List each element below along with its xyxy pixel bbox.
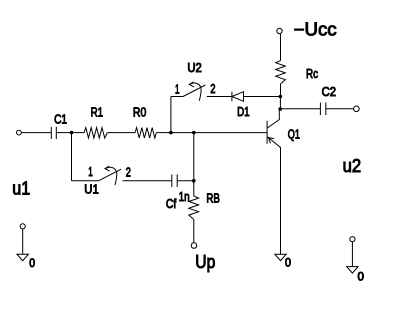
node junction rail/Cf-RB bbox=[192, 131, 196, 135]
resistor RB bbox=[189, 181, 199, 243]
node junction Rc/D1 bbox=[279, 95, 283, 99]
wire junction to C2 bbox=[280, 108, 320, 110]
svg-text:0: 0 bbox=[285, 258, 291, 270]
ground u2 source bbox=[347, 267, 358, 274]
switch U2 bbox=[171, 82, 232, 101]
wire U2 pin1 vertical bbox=[170, 97, 172, 133]
terminal u2 source top bbox=[350, 237, 355, 242]
wire -Ucc to Rc bbox=[280, 34, 282, 61]
svg-text:1n: 1n bbox=[179, 189, 190, 204]
svg-text:1: 1 bbox=[175, 83, 180, 97]
resistor Rc bbox=[276, 61, 286, 97]
wire input to C1 bbox=[22, 132, 52, 134]
ground u1 source bbox=[17, 254, 28, 260]
svg-text:Q1: Q1 bbox=[288, 126, 300, 141]
svg-text:1: 1 bbox=[88, 165, 93, 179]
wire u1 source bbox=[22, 229, 24, 254]
svg-text:RB: RB bbox=[206, 191, 220, 206]
wire u2 source bbox=[351, 242, 353, 267]
wire rail junction to junction bbox=[171, 132, 194, 134]
svg-text:C1: C1 bbox=[54, 111, 67, 126]
svg-text:C2: C2 bbox=[322, 84, 336, 99]
switch U1 bbox=[72, 166, 172, 185]
svg-text:u1: u1 bbox=[12, 179, 30, 199]
svg-text:U1: U1 bbox=[84, 181, 99, 196]
terminal u1 source top bbox=[20, 224, 25, 229]
resistor R1 bbox=[72, 128, 108, 138]
capacitor Cf bbox=[172, 174, 194, 187]
svg-text:u2: u2 bbox=[343, 156, 362, 176]
svg-text:R1: R1 bbox=[91, 104, 104, 119]
svg-text:0: 0 bbox=[29, 258, 35, 270]
wire rail down to Cf junction bbox=[193, 133, 195, 181]
wire R1 to R0 bbox=[107, 132, 135, 134]
svg-text:Up: Up bbox=[195, 252, 215, 272]
wire junction down bbox=[279, 97, 281, 110]
ground Q1 emitter bbox=[275, 254, 286, 261]
capacitor C2 bbox=[320, 103, 353, 116]
svg-text:Cf: Cf bbox=[166, 196, 177, 211]
terminal Up bbox=[191, 243, 197, 249]
terminal input left bbox=[17, 130, 22, 135]
svg-text:−Ucc: −Ucc bbox=[294, 19, 337, 39]
wire C1 junction down to U1 bbox=[71, 133, 73, 181]
node junction collector/C2 bbox=[278, 107, 282, 111]
svg-text:0: 0 bbox=[358, 272, 365, 284]
terminal output right bbox=[354, 106, 360, 112]
svg-text:U2: U2 bbox=[187, 60, 201, 75]
svg-text:R0: R0 bbox=[133, 104, 146, 119]
capacitor C1 bbox=[51, 127, 71, 139]
node junction rail/U2 bbox=[169, 131, 173, 135]
transistor Q1 bbox=[267, 109, 280, 254]
node junction Cf/RB bbox=[192, 179, 196, 183]
svg-text:2: 2 bbox=[210, 82, 215, 96]
diode D1 bbox=[232, 92, 281, 102]
svg-text:2: 2 bbox=[126, 166, 131, 180]
wire rail to Q1 base bbox=[194, 132, 267, 134]
resistor R0 bbox=[135, 128, 171, 138]
svg-text:Rc: Rc bbox=[306, 66, 318, 81]
svg-text:D1: D1 bbox=[237, 104, 250, 119]
node junction C1/R1/U1 bbox=[70, 131, 74, 135]
terminal -Ucc bbox=[277, 28, 282, 33]
